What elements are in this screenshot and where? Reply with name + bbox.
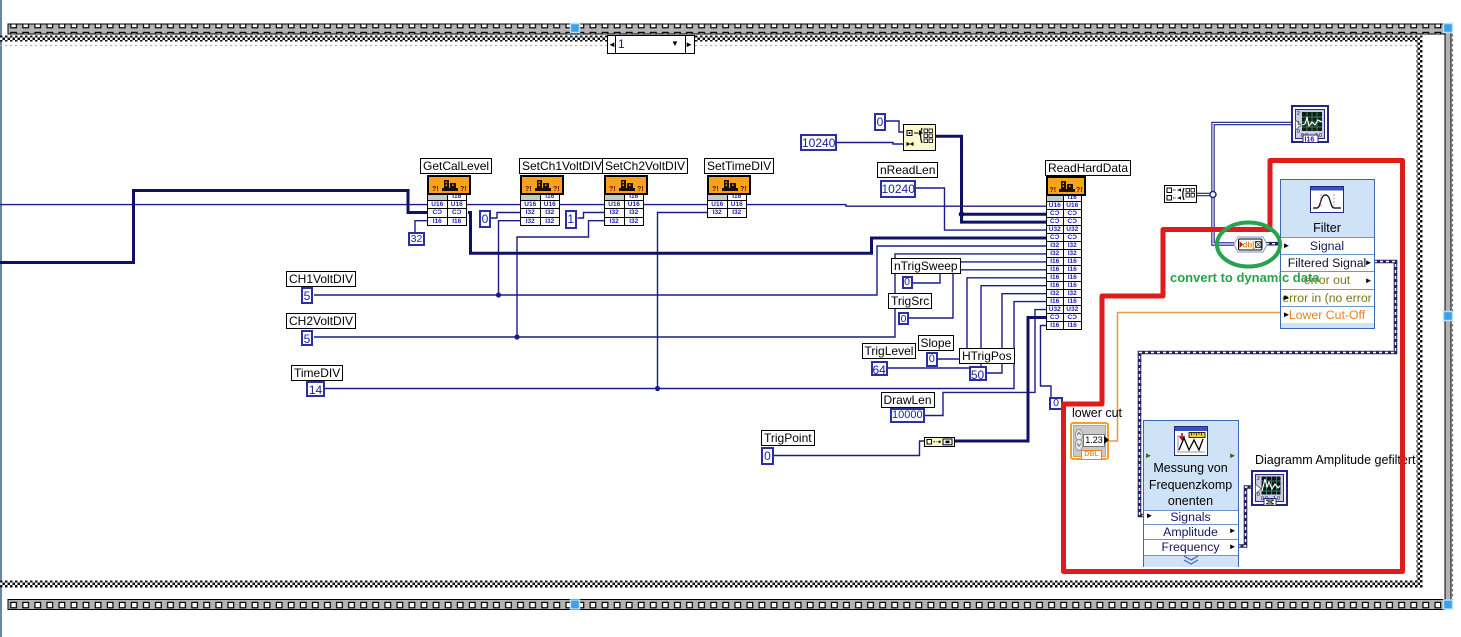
wire: CH1VoltDIV branch up to SetCh1VoltDIV bbox=[499, 221, 522, 295]
control label HTrigPos bbox=[959, 348, 1015, 364]
junction dot hollow at build array output bbox=[1210, 192, 1216, 198]
wire: initialize array output to ReadHardData arrays bbox=[935, 136, 1046, 222]
junction dot CH1 bbox=[496, 292, 501, 297]
dynamic data wire: Filtered Signal to Messung Signals bbox=[1140, 262, 1396, 516]
sequence structure right border bbox=[1445, 24, 1453, 609]
dynamic data wire: Messung to Diagramm graph bbox=[1238, 487, 1253, 546]
dynamic data wire: convert node to Filter Signal bbox=[1266, 242, 1278, 246]
sequence structure top filmstrip border bbox=[8, 24, 1445, 34]
node label SetTimeDIV bbox=[704, 158, 774, 174]
constant 64 (TrigLevel) bbox=[871, 361, 888, 377]
wire: TrigPoint 0 to build array node bbox=[773, 441, 925, 456]
control label CH1VoltDIV bbox=[286, 271, 356, 287]
constant 10240 bbox=[800, 134, 837, 151]
constant 50 (HTrigPos) bbox=[969, 366, 987, 381]
wire: CH1VoltDIV 5 to ReadHardData I32 bbox=[314, 246, 1046, 295]
constant 0 (Slope) bbox=[926, 352, 938, 367]
selection handle bottom-mid bbox=[571, 600, 580, 609]
constant 0 (init array) bbox=[874, 113, 886, 131]
constant 0 (TrigSrc) bbox=[898, 312, 909, 326]
constant 10240 (nReadLen) bbox=[880, 180, 916, 198]
constant 0 (right, lower) bbox=[1049, 397, 1063, 410]
wire: TrigSrc 0 to ReadHardData I16 bbox=[909, 270, 1046, 318]
window left edge bbox=[0, 0, 2, 637]
free label Diagramm Amplitude gefiltert bbox=[1255, 453, 1415, 467]
wire: constant 0 (right) to ReadHardData I16 bottom bbox=[1041, 326, 1052, 398]
control label nTrigSweep bbox=[891, 258, 961, 274]
selection handle top-right bbox=[1444, 24, 1453, 33]
selection handle right-mid bbox=[1444, 312, 1453, 321]
initialize array node bbox=[903, 124, 936, 151]
red annotation outline bbox=[1064, 161, 1403, 572]
control label nReadLen bbox=[877, 162, 938, 178]
wire core (2D array double-line look) bbox=[1196, 194, 1213, 196]
sequence selector bbox=[607, 35, 695, 54]
wire: 10240 to initialize array bbox=[837, 143, 904, 145]
call library node ReadHardData bbox=[1046, 175, 1084, 177]
constant 5 (CH1VoltDIV) bbox=[301, 287, 313, 304]
constant 14 (TimeDIV) bbox=[306, 381, 325, 397]
wire: branch into first C3 row bbox=[962, 213, 1047, 216]
wire: CH2VoltDIV 5 to ReadHardData I32 bbox=[314, 254, 1046, 337]
waveform graph terminal (Diagramm Amplitude gefiltert) bbox=[1251, 470, 1288, 506]
selection handle bottom-right bbox=[1444, 600, 1453, 609]
wire: thick array wire entering from left to GetCalLevel bbox=[0, 191, 428, 263]
call library node GetCalLevel bbox=[427, 174, 469, 176]
svg-text:convert to dynamic data: convert to dynamic data bbox=[1170, 270, 1320, 285]
wire: GetCalLevel C3 output bus to ReadHardData bbox=[468, 213, 1046, 254]
wire: nReadLen 10240 to ReadHardData U32 bbox=[916, 188, 1046, 230]
waveform graph terminal (top) bbox=[1291, 105, 1329, 143]
Filter express VI bbox=[1280, 179, 1375, 329]
wire: TrigPoint build array output to ReadHardData C3 bbox=[955, 318, 1046, 442]
wire: TimeDIV 14 to ReadHardData I16 bbox=[325, 302, 1046, 389]
convert to dynamic data node bbox=[1233, 236, 1268, 253]
wire: TimeDIV branch up to SetTimeDIV bbox=[658, 213, 709, 389]
wire: constant 0 to SetCh1VoltDIV I32 bbox=[491, 213, 521, 219]
free label lower cut bbox=[1072, 406, 1122, 420]
node label GetCalLevel bbox=[420, 158, 492, 174]
control label TrigPoint bbox=[761, 430, 815, 446]
control label CH2VoltDIV bbox=[286, 313, 356, 329]
Messung von Frequenzkomponenten express VI bbox=[1143, 420, 1239, 567]
junction dot TimeDIV bbox=[655, 386, 660, 391]
wire: build array to graph and convert node bbox=[1196, 193, 1213, 196]
junction dot array bbox=[959, 211, 965, 217]
control label TrigLevel bbox=[862, 343, 917, 359]
constant 0 (TrigPoint) bbox=[761, 447, 774, 465]
wire: nTrigSweep 0 to ReadHardData I16 bbox=[912, 262, 1046, 283]
control label TrigSrc bbox=[888, 293, 932, 309]
wire: Slope 0 to ReadHardData I16 bbox=[938, 278, 1046, 359]
control label DrawLen bbox=[881, 392, 935, 408]
junction dot CH2 bbox=[514, 334, 519, 339]
call library node SetCh2VoltDIV bbox=[604, 174, 646, 176]
build array node (TrigPoint) bbox=[924, 437, 955, 447]
constant 5 (CH2VoltDIV) bbox=[301, 330, 313, 346]
build array node (2 inputs) bbox=[1164, 185, 1197, 203]
lower cut DBL numeric control (selected) bbox=[1070, 422, 1109, 460]
wire: DrawLen 10000 to ReadHardData U32 bbox=[925, 310, 1046, 416]
constant 10000 (DrawLen) bbox=[890, 408, 925, 423]
constant 32 bbox=[408, 232, 425, 246]
constant 0 (nTrigSweep) bbox=[902, 276, 913, 289]
constant 0 (SetCh1) bbox=[479, 210, 491, 228]
control label Slope bbox=[918, 335, 955, 351]
wire: constant 32 to GetCalLevel I16 bbox=[415, 221, 428, 232]
call library node SetTimeDIV bbox=[707, 174, 749, 176]
wire: HTrigPos 50 to ReadHardData I32 bbox=[987, 294, 1046, 373]
green ellipse around convert node bbox=[1217, 223, 1280, 267]
selection handle top-mid bbox=[571, 24, 580, 33]
while loop top checkered border bbox=[0, 36, 1422, 42]
wire: TrigLevel 64 to ReadHardData I16 bbox=[888, 286, 1046, 368]
node label SetCh1VoltDIV bbox=[519, 158, 605, 174]
wire: constant 1 to SetCh2VoltDIV I32 bbox=[578, 213, 606, 219]
wire: U16 handle line through all nodes into ReadHardData bbox=[0, 205, 1046, 207]
wire: CH2VoltDIV branch up to SetCh2VoltDIV bbox=[517, 221, 605, 337]
while loop right checkered border bbox=[1417, 36, 1423, 588]
constant 1 (SetCh2) bbox=[565, 210, 578, 229]
wire: constant 0 to initialize array bbox=[886, 121, 904, 132]
marching-ants dashed line below top border bbox=[0, 45, 1416, 47]
node label ReadHardData bbox=[1045, 160, 1131, 176]
orange DBL wire lower cut to Filter Lower Cut-Off bbox=[1108, 313, 1281, 442]
control label TimeDIV bbox=[291, 365, 343, 381]
while loop bottom checkered border bbox=[0, 581, 1422, 588]
node label SetCh2VoltDIV bbox=[602, 158, 688, 174]
call library node SetCh1VoltDIV bbox=[520, 174, 562, 176]
sequence structure bottom filmstrip border bbox=[8, 600, 1445, 610]
